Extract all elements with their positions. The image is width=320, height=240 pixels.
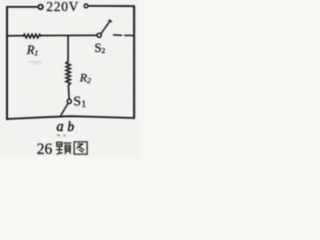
wire top border right segment <box>88 5 134 7</box>
wire from R2 to switch S1 <box>67 85 70 99</box>
svg-text:26: 26 <box>37 141 53 156</box>
svg-text:220V: 220V <box>46 0 79 14</box>
wire right border <box>133 6 135 118</box>
wire bottom border <box>7 116 134 119</box>
switch S2 <box>97 20 133 37</box>
caption glyph 题 <box>56 142 71 154</box>
resistor R1 <box>24 34 41 38</box>
terminal dot right of 220V <box>84 4 88 8</box>
svg-text:b: b <box>67 119 74 134</box>
resistor R2 <box>66 62 70 86</box>
wire top border left segment <box>7 6 38 8</box>
wire from R1 to switch S2 <box>41 34 97 36</box>
svg-text:a: a <box>56 119 63 135</box>
speckle noise <box>28 61 66 136</box>
caption glyph 图 <box>74 142 87 154</box>
node tee junction <box>67 36 69 62</box>
switch S1 <box>61 99 72 115</box>
terminal dot left of 220V <box>38 5 43 10</box>
wire left border <box>6 7 8 119</box>
wire from left border to R1 <box>7 35 24 37</box>
